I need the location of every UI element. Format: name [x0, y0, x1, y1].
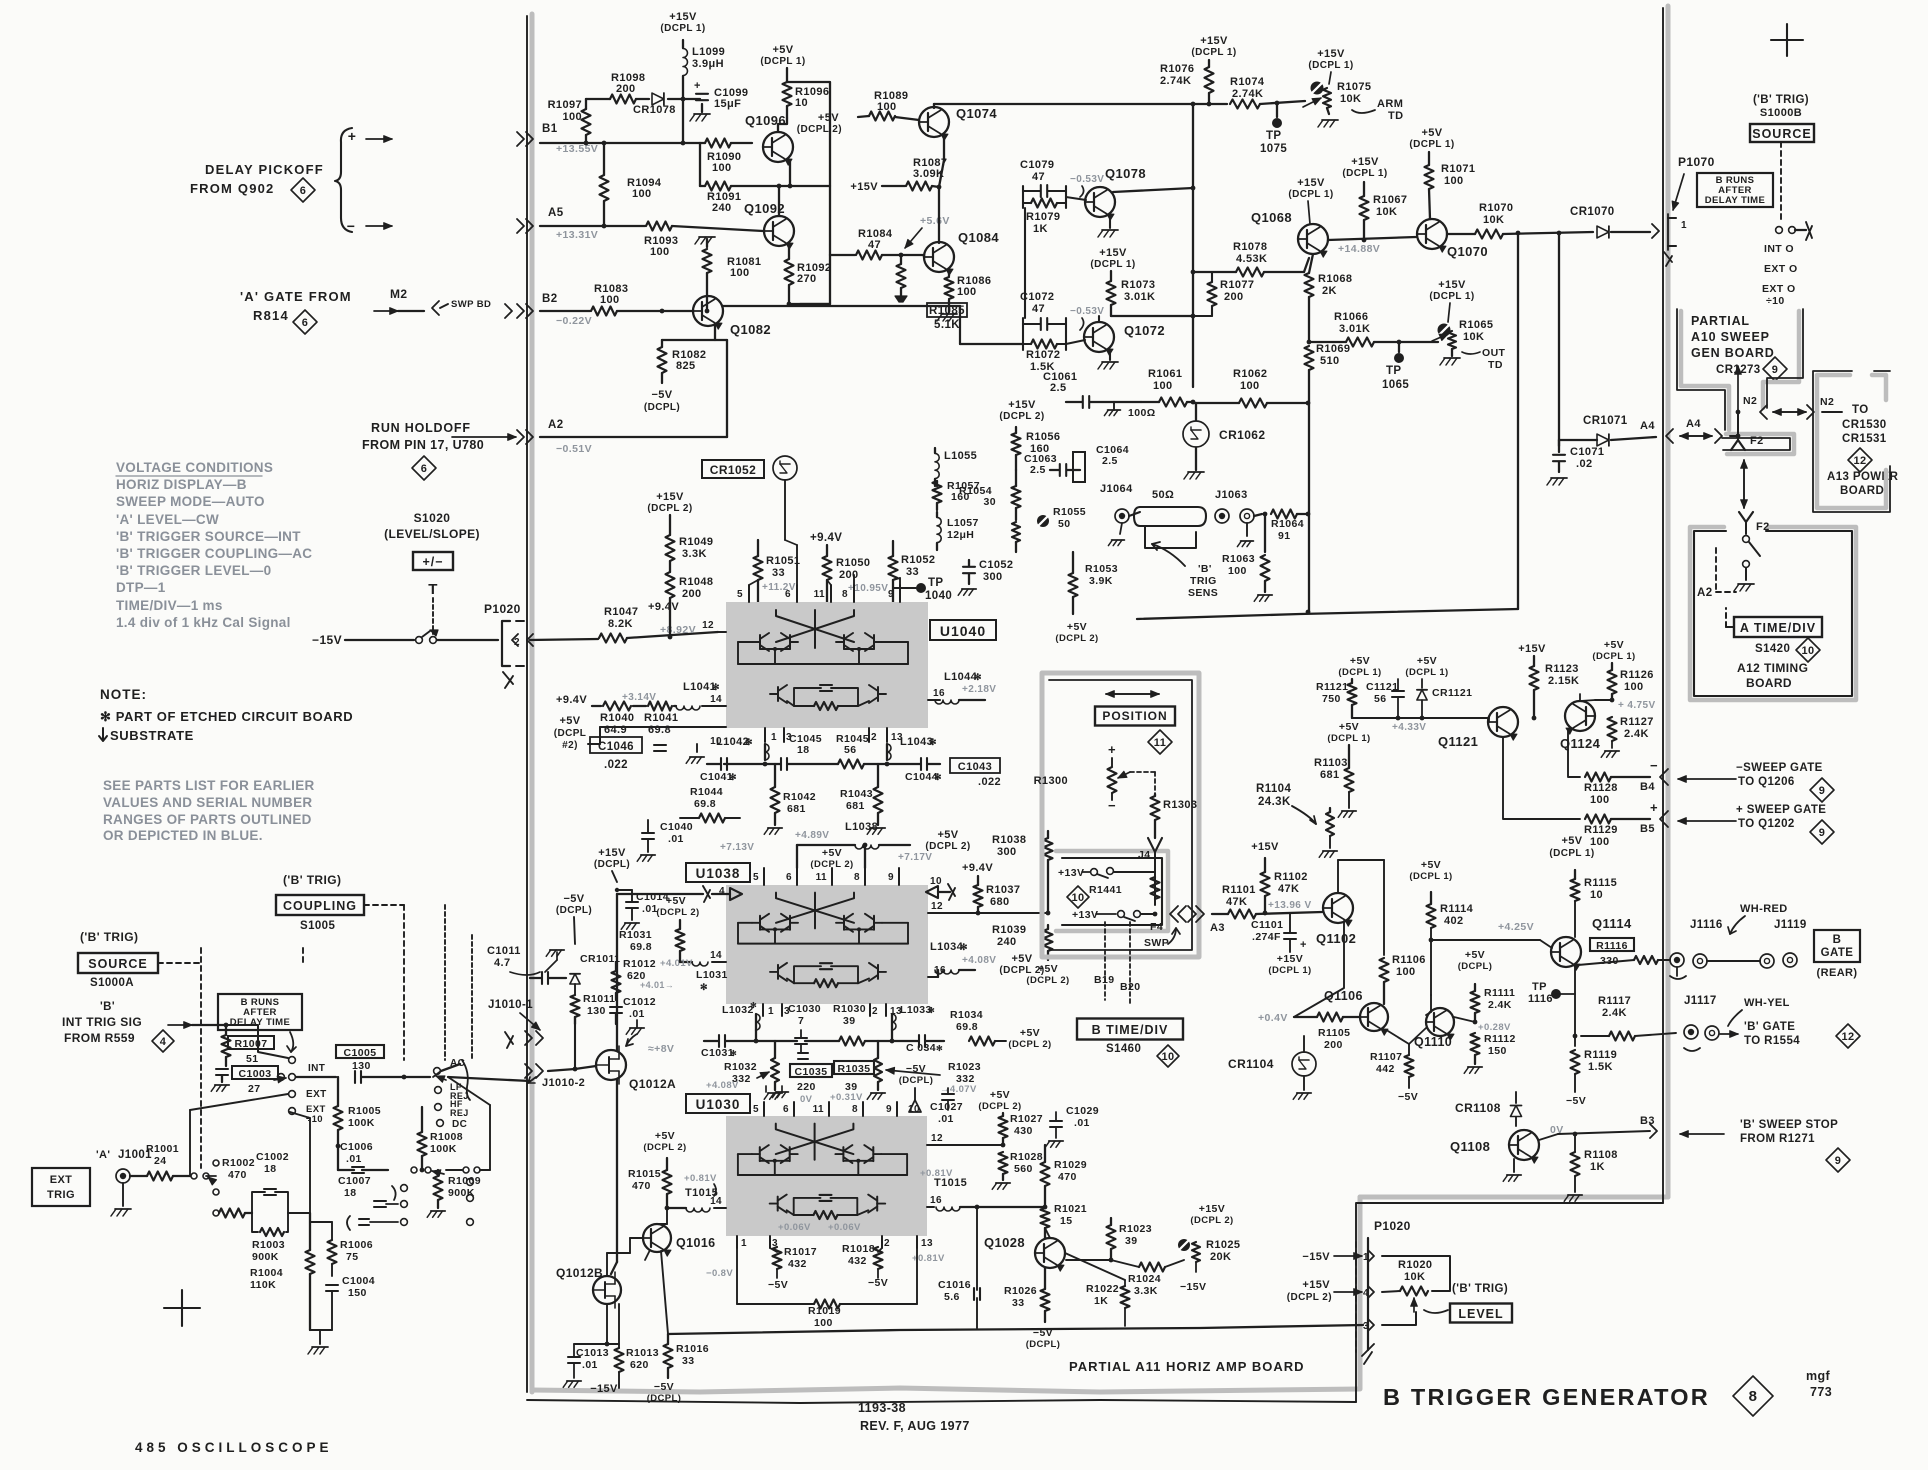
svg-text:R1102: R1102 [1274, 871, 1308, 883]
resistor R1108 [1571, 1152, 1580, 1176]
svg-text:1065: 1065 [1382, 379, 1409, 391]
svg-text:+5V: +5V [1561, 835, 1582, 847]
svg-text:R1097: R1097 [548, 99, 582, 111]
wire C1002 block to EXT/10 path [288, 1212, 310, 1214]
svg-text:(DCPL 2): (DCPL 2) [1008, 1039, 1051, 1050]
svg-text:402: 402 [1444, 915, 1464, 927]
U1040 pin 10 left [710, 726, 726, 728]
svg-text:R1055: R1055 [1053, 506, 1086, 518]
LEVEL box [1450, 1304, 1512, 1323]
wire bottom row U1038 y=1041 [726, 1040, 797, 1042]
svg-text:100K: 100K [430, 1143, 457, 1155]
svg-text:R1300: R1300 [1034, 775, 1068, 787]
svg-text:−0.8V: −0.8V [706, 1268, 733, 1279]
svg-text:47K: 47K [1226, 896, 1247, 908]
svg-text:+13.96 V: +13.96 V [1268, 900, 1312, 911]
svg-text:CR1011: CR1011 [580, 953, 620, 965]
svg-text:('B' TRIG): ('B' TRIG) [80, 930, 138, 944]
svg-text:1: 1 [771, 732, 777, 743]
svg-text:Q1078: Q1078 [1105, 166, 1146, 181]
SOURCE box [1750, 124, 1814, 142]
svg-text:8: 8 [1749, 1388, 1758, 1405]
N2 connector left [1760, 405, 1767, 419]
svg-text:100K: 100K [348, 1117, 375, 1129]
ground Q1072 [1109, 350, 1111, 360]
svg-text:−: − [347, 218, 356, 234]
connector J1010-2 [525, 1064, 532, 1078]
inductor L1033 [892, 1014, 896, 1030]
svg-text:WH-RED: WH-RED [1740, 903, 1788, 915]
svg-text:620: 620 [630, 1359, 649, 1371]
pot R1075 trimmer [1311, 82, 1324, 95]
svg-text:+15V: +15V [1317, 48, 1345, 60]
dashed link S1020 [432, 598, 434, 634]
svg-text:(DCPL 1): (DCPL 1) [1549, 848, 1594, 859]
svg-text:33: 33 [906, 566, 919, 578]
resistor R1062 [1239, 399, 1267, 408]
zener CR1104 [1292, 1052, 1316, 1076]
svg-text:5: 5 [753, 1104, 759, 1115]
svg-text:39: 39 [1125, 1235, 1137, 1247]
svg-text:11: 11 [1154, 737, 1166, 749]
resistor R1009 [434, 1176, 443, 1200]
svg-text:Q1121: Q1121 [1438, 734, 1478, 749]
svg-text:−5V: −5V [768, 1279, 788, 1291]
resistor R1097 [582, 109, 591, 135]
boxed label CR1052 [702, 460, 764, 478]
svg-text:B20: B20 [1120, 981, 1140, 993]
svg-text:Q1110: Q1110 [1414, 1035, 1452, 1049]
svg-text:900K: 900K [448, 1187, 475, 1199]
diamond 6 run holdoff [412, 456, 436, 480]
svg-text:+15V: +15V [598, 847, 626, 859]
chip internal upper transistors [759, 1147, 761, 1161]
svg-text:S1000B: S1000B [1760, 107, 1802, 119]
svg-text:R1039: R1039 [992, 924, 1026, 936]
svg-text:CR1071: CR1071 [1583, 415, 1628, 427]
svg-text:1K: 1K [1094, 1295, 1108, 1307]
svg-text:10: 10 [1161, 1051, 1174, 1063]
svg-text:TRIG: TRIG [47, 1189, 75, 1201]
svg-text:R1061: R1061 [1148, 368, 1182, 380]
board edge shading - step up at x=1360 [1358, 1197, 1363, 1389]
svg-text:+5V: +5V [655, 1130, 675, 1142]
svg-text:('B' TRIG): ('B' TRIG) [1452, 1283, 1508, 1295]
switch circles after R1001 [191, 1173, 197, 1179]
svg-text:CR1108: CR1108 [1455, 1101, 1501, 1115]
svg-text:R1021: R1021 [1054, 1203, 1087, 1215]
svg-text:TO Q1206: TO Q1206 [1738, 776, 1795, 788]
svg-text:'A' LEVEL—CW: 'A' LEVEL—CW [116, 512, 219, 527]
svg-text:Q1084: Q1084 [958, 230, 999, 245]
wire pin16 row to R1021 [977, 1206, 1045, 1208]
svg-text:C1044: C1044 [905, 771, 938, 783]
inductor L1044 [935, 700, 959, 704]
svg-text:130: 130 [587, 1005, 606, 1017]
svg-text:100: 100 [1153, 380, 1173, 392]
wire Q1012B source down [606, 1304, 608, 1344]
svg-text:+15V: +15V [1351, 156, 1379, 168]
capacitor C1012 [610, 1006, 622, 1008]
svg-text:750: 750 [1322, 693, 1341, 705]
svg-text:R1069: R1069 [1316, 343, 1350, 355]
svg-text:R1111: R1111 [1484, 987, 1515, 999]
diamond 9 sweep gate plus [1810, 820, 1834, 844]
wire B2 row [540, 310, 590, 312]
svg-text:OUT: OUT [1482, 347, 1506, 359]
svg-text:−15V: −15V [590, 1383, 618, 1395]
connector B4 [1660, 769, 1668, 785]
resistor R1098 [610, 95, 636, 104]
board edge black line - left vertical wire [526, 16, 528, 1392]
svg-text:10K: 10K [1463, 331, 1484, 343]
svg-text:R1031: R1031 [619, 929, 652, 941]
svg-text:R1044: R1044 [690, 786, 723, 798]
svg-text:R1066: R1066 [1334, 311, 1368, 323]
svg-text:≈+8V: ≈+8V [648, 1043, 674, 1055]
small grounds 100ohm [1108, 409, 1121, 411]
diode CR1070 [1597, 226, 1609, 238]
svg-text:33: 33 [772, 567, 785, 579]
board edge black line - right vertical [1662, 8, 1664, 1203]
svg-text:Q1082: Q1082 [730, 322, 771, 337]
svg-text:−5V: −5V [868, 1277, 888, 1289]
svg-text:R1441: R1441 [1089, 884, 1122, 896]
svg-text:C1030: C1030 [788, 1003, 821, 1015]
dashed wiper to R1303 [1130, 771, 1155, 773]
svg-text:R1015: R1015 [628, 1168, 661, 1180]
svg-text:3.3K: 3.3K [682, 548, 707, 560]
svg-text:'A': 'A' [96, 1149, 110, 1161]
svg-text:(DCPL): (DCPL) [556, 905, 592, 916]
svg-text:50: 50 [1058, 518, 1070, 530]
resistor R1020 pot [1400, 1287, 1428, 1296]
svg-text:56: 56 [844, 744, 856, 756]
svg-text:18: 18 [344, 1187, 356, 1199]
svg-text:3.01K: 3.01K [1339, 323, 1370, 335]
svg-text:33: 33 [682, 1355, 694, 1367]
chip internal lower transistors [777, 965, 779, 979]
svg-text:+15V: +15V [1251, 841, 1279, 853]
chip internal mid rail [738, 943, 908, 945]
EXT TRIG box [32, 1168, 90, 1206]
board edge shading - left vertical [530, 14, 535, 1392]
svg-text:R1104: R1104 [1256, 783, 1291, 795]
wire into R1047 [530, 639, 598, 640]
transistor Q1114 [1551, 937, 1581, 967]
svg-text:.022: .022 [604, 759, 628, 771]
chip internal cross-couple [776, 893, 854, 923]
chip internal cross-couple [776, 1124, 854, 1155]
svg-text:150: 150 [348, 1287, 367, 1299]
resistor R1043 [874, 787, 883, 813]
svg-text:Q1012A: Q1012A [629, 1077, 676, 1091]
svg-text:75: 75 [346, 1251, 358, 1263]
resistor R1021 [1041, 1208, 1050, 1228]
svg-text:SOURCE: SOURCE [1752, 127, 1811, 141]
svg-text:900K: 900K [252, 1251, 279, 1263]
resistor R1083 [591, 307, 617, 316]
svg-text:S1460: S1460 [1106, 1043, 1141, 1055]
vertical link RC clusters [1024, 208, 1026, 318]
svg-text:R1018: R1018 [842, 1243, 875, 1255]
svg-text:(DCPL 2): (DCPL 2) [647, 503, 692, 514]
svg-text:R1065: R1065 [1459, 319, 1493, 331]
svg-text:5: 5 [753, 872, 759, 883]
inductor L1042 below pin1 [765, 744, 769, 760]
diamond 12 b gate [1836, 1024, 1860, 1048]
svg-text:7: 7 [798, 1015, 804, 1027]
svg-text:J1010-1: J1010-1 [488, 999, 533, 1011]
svg-text:+0.06V: +0.06V [778, 1222, 811, 1233]
svg-text:C1052: C1052 [979, 559, 1013, 571]
+/- box [413, 552, 453, 570]
resistor R1119 [1571, 1050, 1580, 1074]
svg-text:DELAY TIME: DELAY TIME [230, 1017, 291, 1028]
svg-text:GATE: GATE [1821, 947, 1854, 959]
svg-text:+: + [1300, 939, 1307, 951]
svg-text:J1117: J1117 [1684, 995, 1717, 1007]
ground dashes CR1011 [550, 949, 564, 951]
svg-text:U1030: U1030 [696, 1097, 741, 1112]
switch in A12 [1745, 522, 1747, 534]
svg-text:+15V: +15V [1277, 953, 1303, 965]
svg-text:R1064: R1064 [1271, 518, 1304, 530]
svg-text:TP: TP [1386, 365, 1402, 377]
gray outline A10 sweep board right piece [1763, 311, 1799, 408]
svg-text:+15V: +15V [669, 11, 697, 23]
svg-text:.01: .01 [668, 833, 684, 845]
svg-text:100Ω: 100Ω [1128, 407, 1156, 419]
wire Q1072 collector up [1098, 316, 1100, 322]
svg-text:C1011: C1011 [487, 945, 521, 957]
svg-text:−0.22V: −0.22V [556, 315, 592, 327]
resistor R1027 [999, 1116, 1008, 1138]
connector P1020-2 bracket [502, 621, 510, 666]
svg-text:LEVEL: LEVEL [1458, 1307, 1503, 1321]
svg-text:R1074: R1074 [1230, 76, 1265, 88]
diamond 10 position [1067, 886, 1089, 908]
svg-text:9: 9 [1772, 364, 1779, 376]
svg-text:R1128: R1128 [1584, 782, 1618, 794]
svg-text:+15V: +15V [1200, 35, 1228, 47]
svg-text:'B': 'B' [100, 1001, 115, 1013]
arrow run holdoff [452, 436, 516, 438]
svg-text:+: + [694, 80, 701, 92]
svg-text:+15V: +15V [656, 491, 684, 503]
svg-text:+5V: +5V [1421, 859, 1441, 871]
testpoint TP1065 [1398, 342, 1400, 352]
svg-text:F2: F2 [1750, 435, 1764, 447]
B RUNS AFTER DELAY TIME box [1697, 173, 1773, 207]
switch contacts INT EXT EXT10 [289, 1057, 296, 1064]
svg-text:.01: .01 [582, 1359, 598, 1371]
svg-text:C1071: C1071 [1570, 446, 1604, 458]
svg-text:16: 16 [930, 1195, 942, 1206]
svg-text:−15V: −15V [312, 633, 342, 647]
svg-text:R1115: R1115 [1584, 877, 1617, 889]
svg-text:R1123: R1123 [1545, 663, 1579, 675]
svg-text:A TIME/DIV: A TIME/DIV [1740, 621, 1816, 635]
svg-text:L1057: L1057 [947, 517, 979, 529]
svg-text:÷10: ÷10 [306, 1114, 323, 1125]
svg-text:R1038: R1038 [992, 834, 1026, 846]
svg-text:1K: 1K [1033, 223, 1048, 235]
svg-text:(DCPL 1): (DCPL 1) [660, 23, 705, 34]
svg-text:9: 9 [888, 589, 894, 600]
ground R1065 [1451, 349, 1453, 356]
svg-text:B3: B3 [1640, 1115, 1655, 1127]
svg-text:+2.18V: +2.18V [962, 684, 996, 695]
svg-text:R1024: R1024 [1128, 1273, 1161, 1285]
wire bottom row y=764 [724, 763, 780, 765]
svg-text:+9.4V: +9.4V [962, 862, 993, 874]
svg-text:Q1070: Q1070 [1447, 244, 1488, 259]
resistor R1054 [1012, 486, 1021, 508]
svg-text:10: 10 [1590, 889, 1603, 901]
transistor Q1082 [693, 296, 723, 326]
svg-text:A4: A4 [1686, 418, 1701, 430]
svg-text:200: 200 [616, 83, 636, 95]
transistor Q1106 [1360, 1003, 1388, 1031]
svg-text:S1005: S1005 [300, 920, 335, 932]
svg-text:4: 4 [719, 886, 725, 897]
chip internal comp network [794, 1198, 821, 1215]
svg-text:.02: .02 [1576, 458, 1593, 470]
transistor Q1110 [1426, 1008, 1454, 1036]
resistor R1026 [1041, 1289, 1050, 1311]
svg-text:100: 100 [1590, 836, 1610, 848]
wire Q1068 to Q1070 [1328, 237, 1416, 240]
svg-text:442: 442 [1376, 1063, 1395, 1075]
svg-text:A5: A5 [548, 207, 564, 219]
svg-text:+5V: +5V [559, 715, 580, 727]
svg-text:CR1530: CR1530 [1842, 419, 1887, 431]
svg-text:R1101: R1101 [1222, 884, 1256, 896]
resistor R1115 [1571, 879, 1580, 901]
chip internal lower transistors [777, 687, 779, 701]
svg-text:773: 773 [1810, 1385, 1832, 1399]
ground Q1108 emitter [1513, 1159, 1515, 1172]
ground in A12 [1738, 583, 1754, 585]
resistor R1090 [705, 139, 731, 148]
resistor R1011 [571, 995, 580, 1017]
svg-text:T: T [428, 581, 438, 598]
wire INT to C1005 [296, 1076, 336, 1078]
svg-text:+/−: +/− [422, 555, 443, 569]
wire Q1124 collector node [1595, 699, 1612, 701]
U1038 pin 16 right [928, 976, 938, 978]
B GATE (REAR) box [1814, 930, 1860, 962]
svg-text:'B' TRIGGER COUPLING—AC: 'B' TRIGGER COUPLING—AC [116, 546, 312, 561]
svg-text:1193-38: 1193-38 [858, 1401, 906, 1415]
wire Q1096 collector loop [778, 118, 787, 132]
svg-text:470: 470 [1058, 1171, 1077, 1183]
svg-text:C1012: C1012 [623, 996, 656, 1008]
svg-text:L1038: L1038 [845, 821, 878, 833]
svg-text:47: 47 [1032, 303, 1045, 315]
resistor R1096 [783, 82, 792, 106]
svg-text:(DCPL 1): (DCPL 1) [1327, 733, 1370, 744]
svg-text:+5V: +5V [822, 847, 842, 859]
svg-text:C1029: C1029 [1066, 1105, 1099, 1117]
svg-text:10K: 10K [1340, 93, 1361, 105]
svg-text:14: 14 [710, 694, 722, 705]
svg-text:+5V: +5V [1465, 949, 1485, 961]
svg-text:R1011: R1011 [583, 993, 615, 1005]
svg-text:3.9K: 3.9K [1089, 575, 1113, 587]
resistor R1127 [1608, 717, 1617, 741]
svg-text:1.4 div of 1 kHz Cal Signal: 1.4 div of 1 kHz Cal Signal [116, 615, 291, 630]
svg-text:+0.81V: +0.81V [684, 1173, 717, 1184]
connector B1 [517, 132, 524, 146]
svg-text:PARTIAL: PARTIAL [1691, 314, 1750, 328]
svg-text:−5V: −5V [654, 1381, 674, 1393]
pot R1025 trimmer [1178, 1239, 1190, 1251]
capacitor C1121 [1392, 690, 1404, 692]
chip internal mid rail [738, 1174, 907, 1176]
svg-text:R1016: R1016 [676, 1343, 709, 1355]
resistor R1073 [1107, 281, 1116, 305]
svg-text:100: 100 [712, 162, 732, 174]
svg-text:+ 4.75V: + 4.75V [1618, 700, 1656, 711]
svg-text:510: 510 [1320, 355, 1340, 367]
svg-text:430: 430 [1014, 1125, 1033, 1137]
switch arm from int trig [226, 1025, 288, 1058]
svg-text:200: 200 [1324, 1039, 1343, 1051]
svg-text:F2: F2 [1756, 521, 1770, 533]
diamond 9 sweep gate minus [1810, 778, 1834, 802]
svg-text:✻: ✻ [712, 682, 720, 692]
registration cross bottom left [164, 1290, 200, 1326]
svg-text:R1040: R1040 [600, 712, 634, 724]
wire Q1082 collector to C1072 node [959, 306, 961, 344]
svg-text:+4.08V: +4.08V [962, 955, 996, 966]
svg-text:RANGES OF PARTS OUTLINED: RANGES OF PARTS OUTLINED [103, 812, 312, 827]
svg-text:50Ω: 50Ω [1152, 489, 1174, 501]
svg-text:J1063: J1063 [1215, 489, 1248, 501]
svg-text:A2: A2 [548, 419, 564, 431]
registration cross top right [1771, 24, 1803, 56]
resistor R1056 [1012, 433, 1021, 455]
resistor R1074 [1230, 100, 1260, 109]
svg-text:+5V: +5V [937, 829, 958, 841]
svg-text:−SWEEP GATE: −SWEEP GATE [1736, 762, 1823, 774]
svg-text:TP: TP [928, 577, 944, 589]
P1020 bracket [1367, 1238, 1369, 1350]
resistor R1015 [663, 1170, 672, 1194]
F2 fork lower [1739, 512, 1753, 522]
svg-text:mgf: mgf [1806, 1369, 1831, 1383]
boxed label U1038 [686, 863, 750, 882]
svg-text:2.4K: 2.4K [1488, 999, 1512, 1011]
svg-text:100: 100 [1240, 380, 1260, 392]
connector A2 [517, 430, 524, 444]
svg-text:+15V: +15V [850, 181, 878, 193]
wire R1021 to Q1028 collector [1045, 1228, 1050, 1238]
svg-text:2.5: 2.5 [1050, 382, 1067, 394]
wire Q1114 emitter down [1574, 966, 1576, 1046]
svg-text:R1116: R1116 [1596, 940, 1628, 952]
resistor R1050 [823, 556, 832, 580]
svg-text:R1023: R1023 [1119, 1223, 1152, 1235]
pin 4 chevron [1368, 1286, 1374, 1298]
svg-text:SENS: SENS [1188, 587, 1218, 599]
svg-text:8.2K: 8.2K [608, 618, 633, 630]
svg-text:N2: N2 [1743, 395, 1757, 407]
resistor R1114 [1427, 904, 1436, 928]
svg-text:'A' GATE FROM: 'A' GATE FROM [240, 289, 352, 304]
